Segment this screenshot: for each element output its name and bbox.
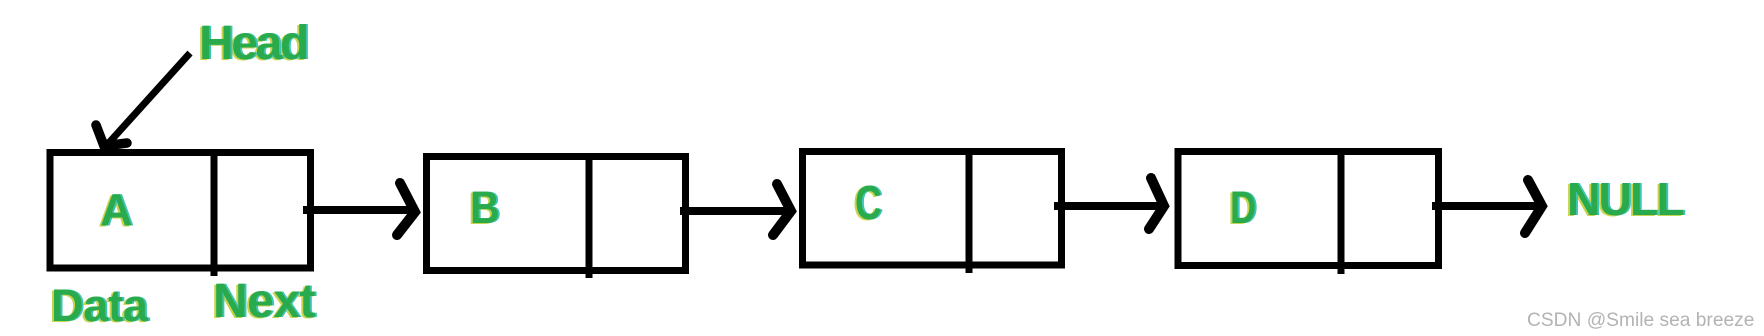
arrow D to NULL (1432, 180, 1542, 233)
svg-text:Data: Data (51, 280, 149, 331)
svg-text:NULL: NULL (1567, 173, 1683, 225)
node D data letter (1228, 182, 1258, 234)
svg-text:B: B (470, 182, 500, 233)
svg-text:A: A (100, 185, 133, 236)
label Data (49, 280, 151, 332)
node C data letter (853, 177, 884, 231)
label NULL (1565, 173, 1685, 226)
head pointer arrow (96, 53, 190, 152)
arrow A to B (303, 183, 415, 235)
node C box (803, 151, 1062, 273)
arrow C to D (1054, 178, 1164, 229)
label Next (211, 275, 318, 329)
arrow B to C (680, 184, 791, 235)
label Head (197, 17, 309, 71)
node B data letter (468, 182, 502, 234)
svg-text:C: C (855, 177, 882, 230)
svg-text:CSDN @Smile sea breeze: CSDN @Smile sea breeze (1527, 310, 1754, 331)
svg-text:D: D (1230, 182, 1256, 233)
svg-text:Next: Next (213, 275, 316, 328)
node D box (1178, 151, 1439, 274)
node B box (427, 156, 686, 278)
node A box (50, 152, 311, 276)
node A data letter (98, 185, 135, 237)
svg-text:Head: Head (199, 17, 307, 70)
